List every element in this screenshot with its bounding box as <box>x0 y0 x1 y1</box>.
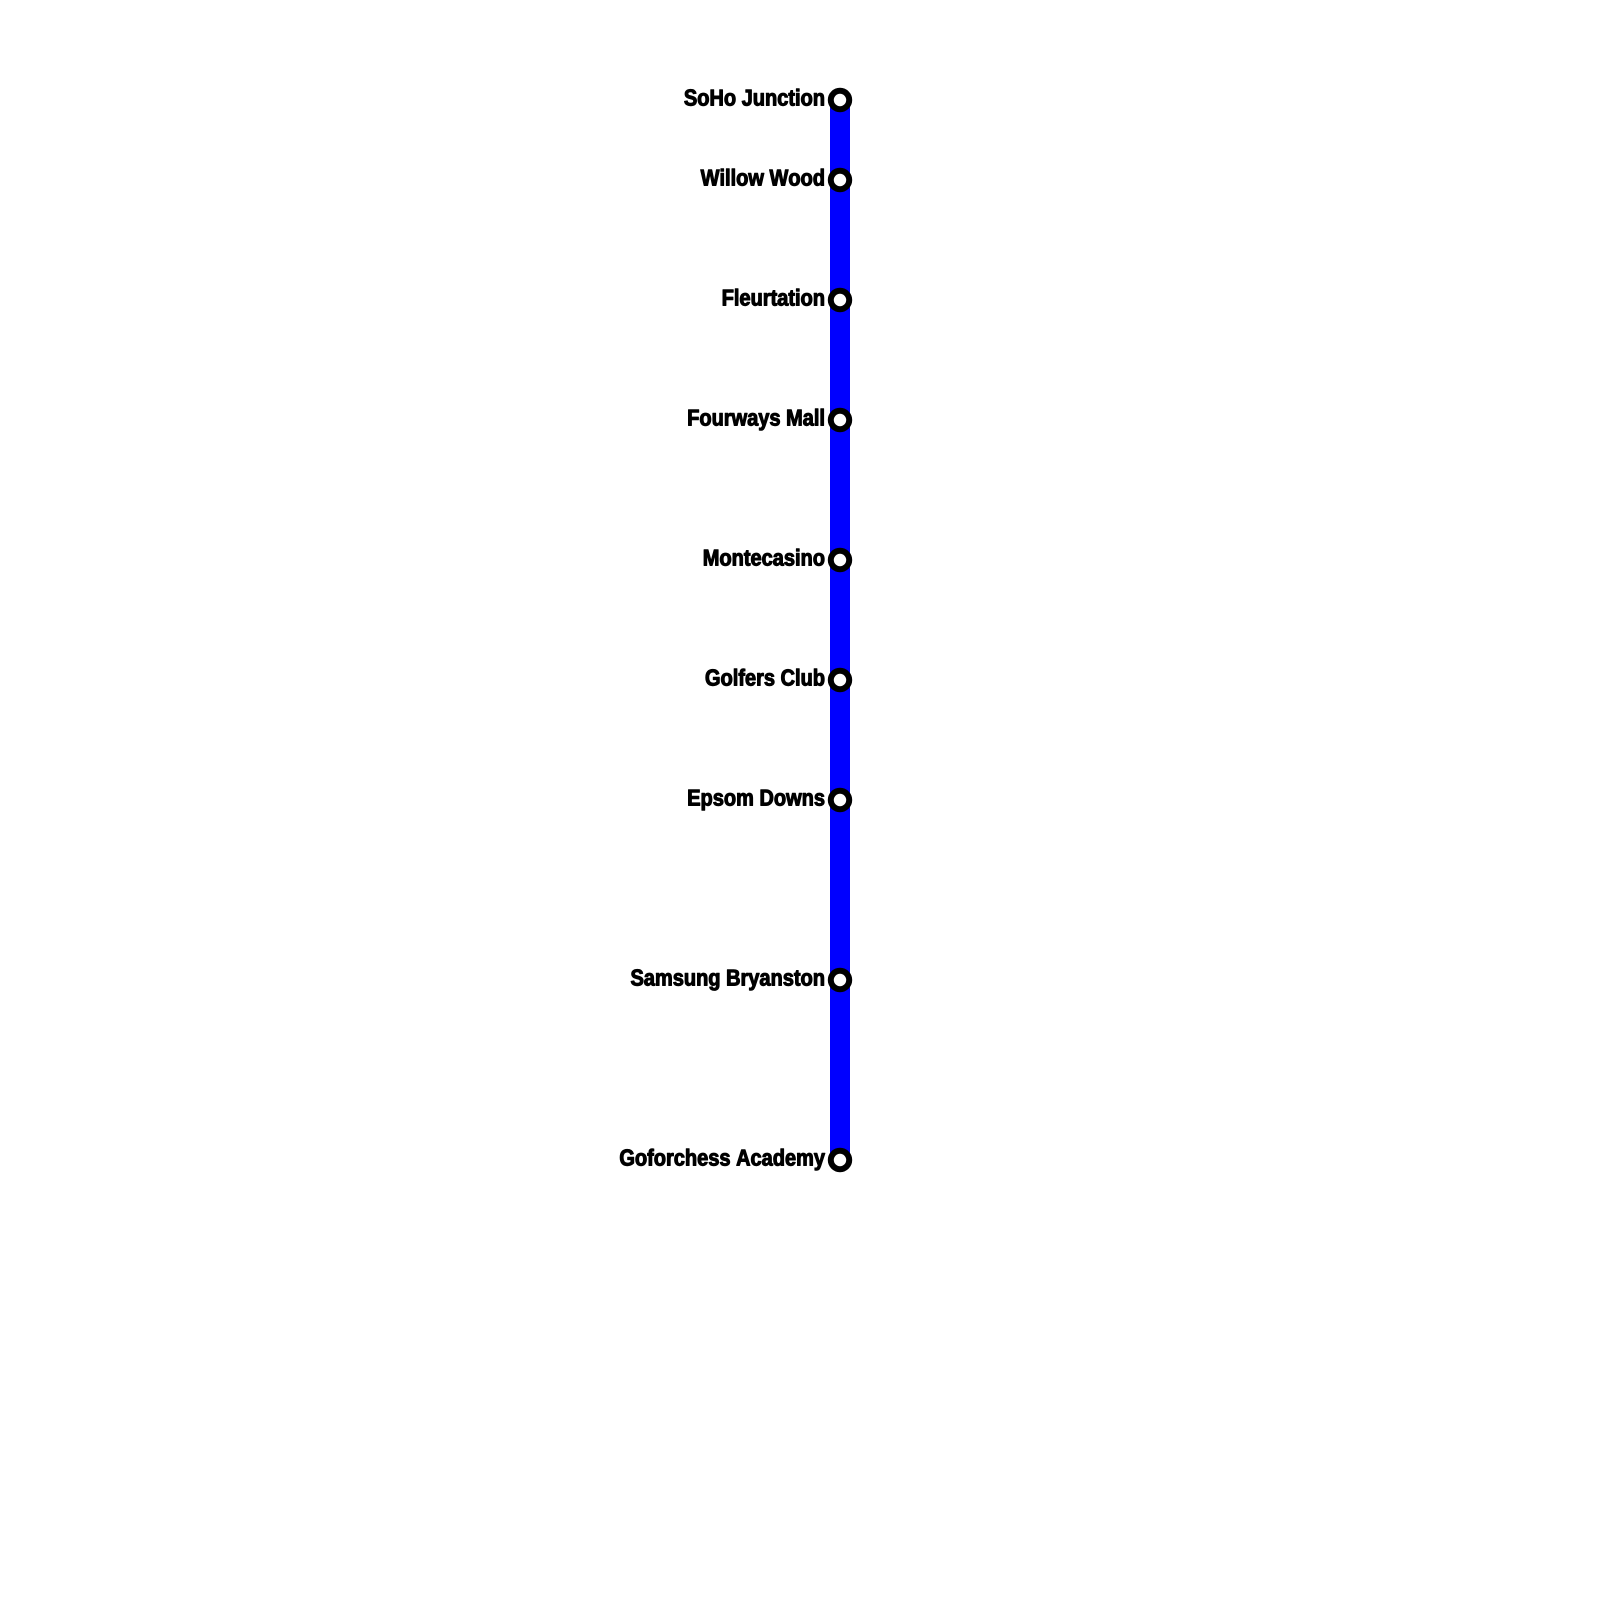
node Willow Wood station <box>831 171 849 189</box>
label Golfers Club <box>706 669 824 686</box>
node Fourways Mall station <box>831 411 849 429</box>
label Fleurtation <box>723 289 824 306</box>
node Samsung Bryanston station <box>831 971 849 989</box>
label Samsung Bryanston <box>631 969 824 990</box>
label SoHo Junction <box>685 89 824 106</box>
label Goforchess Academy <box>620 1149 825 1171</box>
label Willow Wood <box>701 169 824 186</box>
node Goforchess Academy station <box>831 1151 849 1169</box>
node Golfers Club station <box>831 671 849 689</box>
label Epsom Downs <box>689 790 825 811</box>
node Epsom Downs station <box>831 791 849 809</box>
wire Blue Line route <box>830 100 850 1160</box>
node SoHo Junction station <box>831 91 849 109</box>
label Montecasino <box>704 549 824 566</box>
label Fourways Mall <box>689 409 824 431</box>
node Fleurtation station <box>831 291 849 309</box>
node Montecasino station <box>831 551 849 569</box>
